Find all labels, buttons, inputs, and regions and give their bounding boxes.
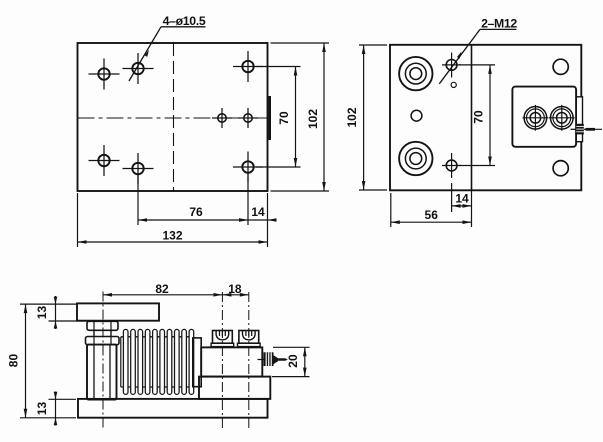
top loading plate: [77, 303, 159, 320]
dimension 102 (plan): [271, 43, 330, 191]
corner hole bottom-right: [553, 161, 568, 176]
end flange plate: [193, 338, 201, 387]
dimension 13 bottom: [35, 392, 76, 426]
sensor body (side view): [201, 347, 262, 376]
hole 10.5 top-right: [233, 51, 263, 82]
hole 10.5 bottom-right: [233, 152, 263, 183]
lock nut lower: [86, 337, 120, 345]
clamp bolt left: [523, 105, 549, 131]
hole 10.5 bottom-left: [123, 153, 154, 184]
bearing boss top (triple circle): [399, 57, 432, 90]
svg-text:102: 102: [306, 109, 320, 129]
label 4-d10.5 with leader: [129, 14, 206, 81]
support centerline: [102, 292, 104, 431]
bearing boss bottom (triple circle): [399, 142, 432, 175]
svg-text:56: 56: [425, 208, 439, 222]
threaded stem: [94, 330, 111, 336]
tiny pin hole: [451, 82, 456, 87]
svg-text:82: 82: [155, 282, 169, 296]
svg-text:14: 14: [251, 205, 265, 219]
dimension 70 (plan right): [256, 67, 301, 168]
small screw hole right: [238, 108, 258, 128]
thick tab on right edge: [268, 96, 271, 140]
bolt centerline left: [221, 292, 223, 430]
svg-text:20: 20: [286, 354, 300, 368]
clamp bolt right: [549, 105, 575, 131]
dimension 102 (end view): [345, 45, 387, 190]
svg-text:18: 18: [228, 282, 242, 296]
cable gland (side view): [258, 352, 288, 366]
clamp bolt right (side): [238, 331, 261, 347]
side tab plate: [576, 97, 582, 142]
small screw hole left: [212, 108, 232, 128]
dimension 18: [222, 282, 248, 297]
dimension 13 top: [35, 296, 87, 329]
lock nut upper: [87, 321, 118, 330]
base plate (side view): [78, 399, 268, 418]
svg-text:2–M12: 2–M12: [481, 17, 517, 31]
hole 10.5 top-left (leader target): [123, 53, 154, 84]
bellows ribs: [123, 329, 193, 394]
svg-text:14: 14: [455, 192, 469, 206]
end plate outline: [390, 45, 581, 191]
svg-text:4–ø10.5: 4–ø10.5: [163, 14, 206, 28]
svg-text:76: 76: [189, 205, 203, 219]
svg-text:80: 80: [7, 354, 21, 368]
inner edge line: [471, 45, 473, 190]
dimension 80: [7, 304, 77, 418]
dimension 82: [103, 282, 222, 297]
dimension 70 (end view): [459, 65, 495, 166]
dimension 76: [138, 172, 248, 225]
dimension 56: [391, 193, 472, 227]
svg-text:70: 70: [472, 110, 486, 124]
bolt centerline right: [248, 292, 250, 430]
vertical centerline: [173, 43, 175, 191]
dimension 14 (plan): [239, 193, 277, 247]
plate outline: [78, 43, 268, 191]
dimension 14 (end view): [452, 183, 472, 212]
side hole upper-left: [89, 59, 120, 90]
small hole middle: [411, 110, 422, 121]
svg-text:13: 13: [35, 402, 49, 416]
dimension 20: [272, 347, 310, 376]
cable gland (end view): [571, 124, 603, 135]
dimension 132: [78, 193, 268, 247]
side hole lower-left: [89, 145, 120, 176]
svg-text:132: 132: [162, 229, 182, 243]
svg-text:70: 70: [277, 111, 291, 125]
M12 hole bottom: [442, 153, 461, 178]
svg-text:13: 13: [35, 306, 49, 320]
clamp bolt left (side): [211, 331, 234, 347]
M12 hole top: [442, 53, 461, 78]
label 2-M12 with leader: [439, 17, 517, 84]
horizontal centerline: [78, 117, 268, 119]
mounting step block: [199, 377, 270, 399]
sensor body (end view): [512, 87, 576, 147]
corner hole top-right: [553, 59, 568, 74]
support column: [87, 345, 117, 400]
svg-text:102: 102: [345, 107, 359, 127]
bellows shoulders and inner folds: [121, 337, 194, 387]
